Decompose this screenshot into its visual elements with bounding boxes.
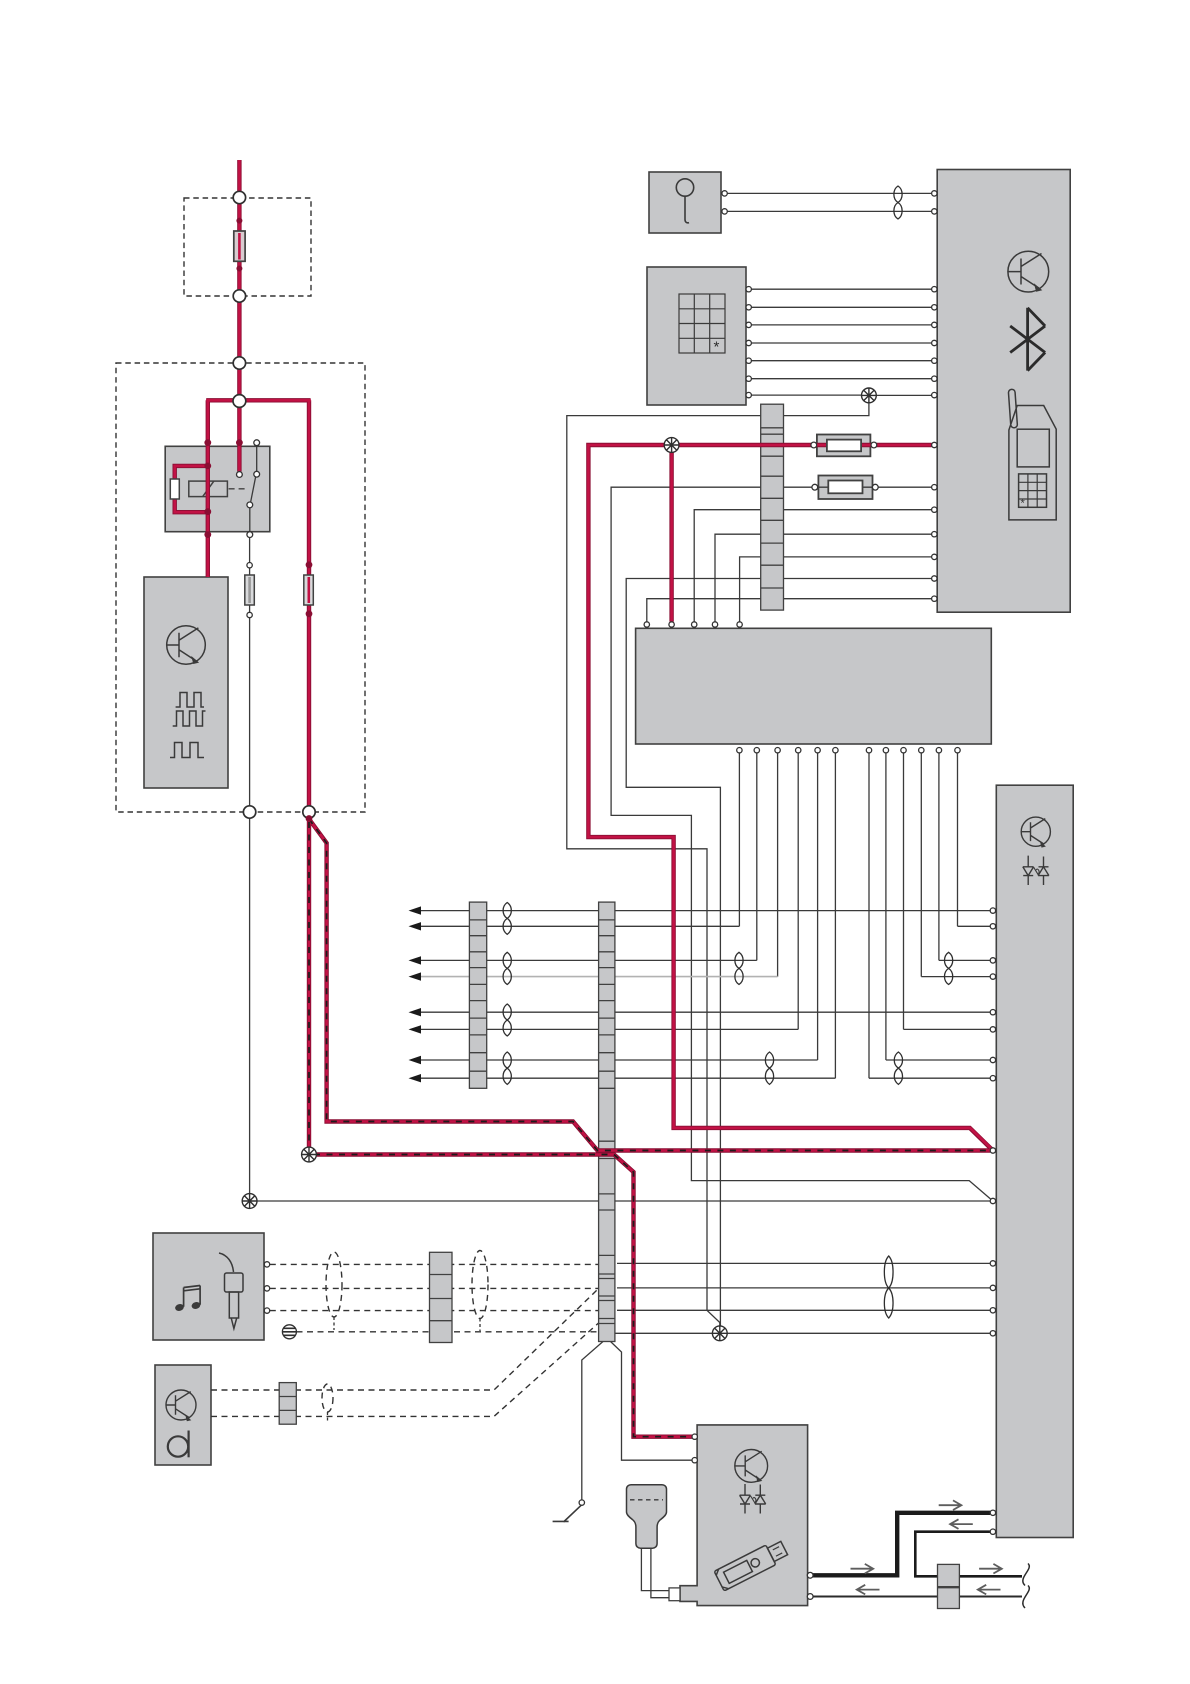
dashed fuse holder box bbox=[184, 198, 311, 296]
connector strip C2 (long middle) bbox=[599, 902, 615, 1341]
wire speaker row3 left bbox=[418, 959, 757, 961]
red junction dot fuse bottom bbox=[236, 266, 242, 272]
square wave symbol row2 bbox=[173, 711, 206, 726]
connector block C4 (AUX) bbox=[430, 1252, 453, 1342]
pin ECU bottom1 bbox=[737, 748, 742, 753]
red junction dot coil top bbox=[204, 463, 211, 470]
audio amplifier box (right tall) bbox=[996, 785, 1073, 1537]
splice S3 red branch bbox=[302, 1147, 317, 1162]
transistor symbol (diagnostic box) bbox=[735, 1450, 768, 1483]
pin aux box R bbox=[264, 1286, 269, 1291]
PINS bbox=[233, 191, 315, 818]
inline connector on red branch wire bbox=[304, 575, 314, 605]
pin mic out2 bbox=[722, 209, 727, 214]
connector block C5 (antenna lead) bbox=[279, 1383, 296, 1425]
keypad icon (keypad box) bbox=[679, 294, 725, 356]
relay K1 body bbox=[165, 446, 270, 531]
wire ECU pin7 drop bbox=[868, 750, 870, 1078]
node connector circle top2 bbox=[233, 290, 245, 302]
red feed wire vertical (bright) bbox=[238, 160, 241, 398]
pin phone module k7 bbox=[932, 392, 937, 397]
pin amp row3 bbox=[990, 958, 995, 963]
wire speaker row6 left bbox=[418, 1028, 798, 1030]
pin ECU bottom2 bbox=[754, 748, 759, 753]
wire ECU pin6 drop bbox=[834, 750, 836, 1078]
wire speaker row4 right bbox=[921, 976, 990, 978]
pin amp usb1 bbox=[990, 1510, 995, 1515]
twist symbol right rows 3-4 bbox=[944, 952, 952, 984]
pin keypad 5 bbox=[746, 358, 751, 363]
red/black stripe dashes branch B bbox=[309, 819, 986, 1151]
wire keypad 6 bbox=[751, 378, 931, 380]
arrow row6 bbox=[409, 1025, 422, 1033]
pin amp row7 bbox=[990, 1057, 995, 1062]
fuse 2 wire across bbox=[818, 486, 872, 488]
wire keypad 7 shield to splice and phone module bbox=[567, 395, 932, 1326]
pin relay switch top bbox=[254, 471, 260, 477]
twist symbol aux triple bbox=[884, 1256, 893, 1318]
pin ECU bottom9 bbox=[901, 748, 906, 753]
pin aux box L bbox=[264, 1262, 269, 1267]
wire ECU pin9 drop bbox=[903, 750, 905, 1029]
pin amp auxG bbox=[990, 1308, 995, 1313]
wire ECU pin4 drop bbox=[797, 750, 799, 1029]
pin phone module mic1 bbox=[932, 191, 937, 196]
pin relay 86 bbox=[254, 440, 260, 446]
pin diag box 2 bbox=[692, 1458, 697, 1463]
wire ECU pin10 drop bbox=[920, 750, 922, 976]
pin phone module d bbox=[932, 576, 937, 581]
pin ECU bottom4 bbox=[796, 748, 801, 753]
wire ECU pin2 drop bbox=[756, 750, 758, 960]
pin phone module 31 bbox=[932, 485, 937, 490]
music note icon bbox=[174, 1286, 201, 1312]
pin phone module k2 bbox=[932, 305, 937, 310]
red branch to splice (dark edge) bbox=[309, 816, 990, 1437]
gray arrow usb left bbox=[950, 1519, 973, 1529]
pin ECU top2 bbox=[669, 622, 674, 627]
wire strip exit to hook switch bbox=[582, 1342, 603, 1500]
red junction dot branch conn bottom bbox=[306, 610, 313, 617]
wire from connector node down to splice bbox=[249, 817, 251, 1193]
relay coil resistor bbox=[170, 479, 179, 499]
wire audio in L bbox=[617, 1262, 990, 1264]
pin amp usb2 bbox=[990, 1529, 995, 1534]
node connector circle bottom-right bbox=[303, 806, 315, 818]
shield oval tail 3 bbox=[327, 1412, 329, 1421]
red junction dot coil bottom bbox=[204, 508, 211, 515]
arrow row1 bbox=[409, 906, 422, 914]
transistor symbol (phone module) bbox=[1008, 251, 1049, 292]
pin mic out1 bbox=[722, 191, 727, 196]
MODULE BOXES bbox=[144, 170, 1073, 1606]
pin phone module k6 bbox=[932, 376, 937, 381]
wire mic - bbox=[727, 210, 931, 212]
wire speaker row8 right bbox=[869, 1077, 990, 1079]
arrow row8 bbox=[409, 1074, 422, 1082]
twist symbol rows 5-6 bbox=[503, 1004, 511, 1036]
wire speaker row2 left bbox=[418, 925, 739, 927]
pin amp ground bbox=[990, 1198, 995, 1203]
red junction dot branch split bbox=[306, 815, 313, 822]
wire speaker row7 left bbox=[418, 1059, 818, 1061]
bluetooth symbol bbox=[1010, 308, 1045, 371]
pin phone module k5 bbox=[932, 358, 937, 363]
node connector circle top1 bbox=[233, 191, 245, 203]
pin aux box G bbox=[264, 1308, 269, 1313]
pin amp row8 bbox=[990, 1076, 995, 1081]
wire speaker row3 right bbox=[939, 959, 990, 961]
gray arrow diag left bbox=[857, 1585, 880, 1595]
wire ECU pin8 drop bbox=[885, 750, 887, 1060]
wire ECU pin11 drop bbox=[938, 750, 940, 960]
antenna amplifier module box bbox=[144, 577, 228, 788]
arrow row2 bbox=[409, 922, 422, 930]
pin relay 87 bbox=[247, 532, 253, 538]
red main supply net (dark edge) bbox=[588, 445, 993, 1151]
bluetooth phone module box (top right) bbox=[937, 170, 1070, 613]
medium USB return wire bbox=[915, 1532, 1022, 1577]
wire audio in R bbox=[617, 1287, 990, 1289]
wire keypad 1 bbox=[751, 288, 931, 290]
pin phone module k1 bbox=[932, 287, 937, 292]
break squiggle upper bbox=[1023, 1564, 1029, 1586]
microphone unit box bbox=[649, 172, 721, 233]
pin ECU top4 bbox=[712, 622, 717, 627]
wire keypad 4 bbox=[751, 342, 931, 344]
dashed AUX wire G bbox=[270, 1310, 598, 1312]
OBD connector plug icon bbox=[627, 1485, 667, 1549]
pin phone module mic2 bbox=[932, 209, 937, 214]
pin relay switch bottom bbox=[247, 502, 253, 508]
pin fuse2 left bbox=[812, 484, 818, 490]
node connector circle bottom-left bbox=[243, 806, 255, 818]
pin keypad 3 bbox=[746, 322, 751, 327]
dashed antenna wire 1 bbox=[211, 1290, 597, 1390]
pin phone module c bbox=[932, 554, 937, 559]
connector block C6 (bottom right) bbox=[938, 1564, 960, 1608]
pin keypad 4 bbox=[746, 340, 751, 345]
wire speaker row8 left bbox=[418, 1077, 835, 1079]
pin ECU top1 bbox=[644, 622, 649, 627]
svg-text:*: * bbox=[1021, 498, 1026, 510]
wire speaker row4 left (gray) bbox=[418, 976, 778, 978]
wire ECU pin1 drop bbox=[738, 750, 740, 926]
twist symbol rows 1-2 bbox=[503, 903, 511, 935]
shield oval 1 bbox=[326, 1252, 342, 1317]
wire ECU pin5 drop bbox=[817, 750, 819, 1060]
diagnostic tab white plug bbox=[669, 1588, 680, 1601]
pin keypad 1 bbox=[746, 287, 751, 292]
connector strip C3 (top, near fuses) bbox=[761, 404, 784, 610]
svg-text:*: * bbox=[714, 339, 720, 356]
wire speaker row2 right bbox=[958, 925, 991, 927]
red feed wire vertical (dark edge) bbox=[237, 160, 241, 398]
STRIPS bbox=[279, 404, 959, 1608]
pin phone module k3 bbox=[932, 322, 937, 327]
wire ECU pin12 drop bbox=[957, 750, 959, 926]
splice S1 keypad shield bbox=[862, 388, 877, 403]
pin ECU bottom12 bbox=[955, 748, 960, 753]
pin diag box usb out bbox=[807, 1572, 813, 1578]
thick USB data wire bbox=[813, 1513, 990, 1576]
wire keypad 3 bbox=[751, 324, 931, 326]
arrow row4 bbox=[409, 972, 422, 980]
red junction dot fuse top bbox=[236, 218, 242, 224]
dual zener symbol (audio amplifier) bbox=[1023, 856, 1049, 885]
wire speaker row6 right bbox=[904, 1028, 991, 1030]
pin diag box supply bbox=[692, 1434, 697, 1439]
pin amp row6 bbox=[990, 1027, 995, 1032]
pin keypad 2 bbox=[746, 305, 751, 310]
wire phone module pin 578 bypass to splice bbox=[626, 579, 931, 1327]
gray arrow usb right bbox=[939, 1500, 962, 1510]
wire phone module pin 557 to ECU bbox=[740, 557, 932, 622]
wire ground splice row to amplifier pin bbox=[257, 1200, 990, 1202]
pin ECU bottom3 bbox=[775, 748, 780, 753]
wire speaker row7 right bbox=[886, 1059, 990, 1061]
pin amp row5 bbox=[990, 1010, 995, 1015]
audio jack plug icon bbox=[219, 1253, 243, 1329]
pin ECU bottom5 bbox=[815, 748, 820, 753]
pin ECU top5 bbox=[737, 622, 742, 627]
red main supply net (bright) bbox=[588, 445, 993, 1151]
pin hook switch bbox=[579, 1500, 584, 1505]
red/black stripe dashes branch A bbox=[309, 822, 688, 1437]
shield oval tail 1 bbox=[333, 1317, 335, 1330]
pin phone module 30 bbox=[932, 442, 937, 447]
dashed AUX shield wire bbox=[297, 1331, 599, 1333]
red junction bar (bright) bbox=[206, 400, 311, 808]
twist symbol rows 7-8 bbox=[503, 1052, 511, 1084]
shield oval 3 bbox=[322, 1384, 333, 1412]
wire audio drain to splice bbox=[615, 1332, 990, 1334]
wire phone module pin 534 to ECU bbox=[715, 534, 932, 622]
transistor symbol (antenna amplifier) bbox=[167, 626, 206, 665]
twist symbol mid rows 7-8 bbox=[765, 1052, 773, 1084]
red junction dot branch conn top bbox=[306, 561, 313, 568]
pin phone module k4 bbox=[932, 340, 937, 345]
AUX media source box bbox=[153, 1233, 264, 1340]
diagnostic connector cable double line bbox=[641, 1547, 670, 1598]
wire strip exit to diag box bbox=[611, 1342, 693, 1461]
twist symbol right rows 7-8 bbox=[894, 1052, 902, 1084]
mobile phone icon bbox=[1008, 389, 1056, 520]
pin ECU bottom11 bbox=[936, 748, 941, 753]
pin diag box acc out bbox=[807, 1594, 813, 1600]
relay coil rectangle bbox=[189, 481, 247, 497]
inline connector on switch wire bbox=[245, 575, 255, 605]
pin amp auxS bbox=[990, 1331, 995, 1336]
shield oval 2 bbox=[472, 1251, 488, 1319]
red coil loop (bright) bbox=[175, 466, 208, 512]
gray arrow ext left bbox=[978, 1585, 1001, 1595]
wire keypad 2 bbox=[751, 306, 931, 308]
gray arrow diag right bbox=[851, 1564, 874, 1574]
wire keypad 5 bbox=[751, 360, 931, 362]
splice S2 supply bbox=[664, 438, 679, 453]
pin fuse1 right bbox=[871, 442, 877, 448]
twist symbol mic pair bbox=[894, 186, 902, 219]
break squiggle lower bbox=[1023, 1586, 1029, 1609]
pin amp row4 bbox=[990, 974, 995, 979]
pin amp auxL bbox=[990, 1261, 995, 1266]
red junction dot relay 87 bbox=[204, 531, 211, 538]
antenna unit box (a) bbox=[155, 1365, 211, 1465]
pin amp supply bbox=[990, 1148, 995, 1153]
diagnostic interface box (bottom) bbox=[680, 1425, 808, 1606]
square wave symbol row1 bbox=[176, 693, 204, 708]
arrow row3 bbox=[409, 956, 422, 964]
fuse 1 element bbox=[827, 440, 861, 452]
pin ECU bottom6 bbox=[833, 748, 838, 753]
pin inline conn bottom bbox=[247, 612, 252, 617]
pin amp row1 bbox=[990, 908, 995, 913]
pin ECU top3 bbox=[692, 622, 697, 627]
node connector circle top3 bbox=[233, 357, 245, 369]
pin fuse1 left bbox=[811, 442, 817, 448]
fuse holder 1 body bbox=[817, 435, 871, 457]
wire speaker row1 bbox=[418, 910, 990, 912]
keypad unit box bbox=[647, 267, 746, 405]
wire phone module pin 509 to ECU bbox=[694, 510, 931, 622]
red junction dot relay top left bbox=[204, 439, 211, 446]
arrow row5 bbox=[409, 1008, 422, 1016]
wire audio in shield bbox=[617, 1309, 990, 1311]
shield oval tail 2 bbox=[479, 1319, 481, 1332]
dashed AUX wire L bbox=[270, 1263, 598, 1265]
fuse in holder box 1 bbox=[234, 231, 245, 261]
pin keypad 7 bbox=[746, 392, 751, 397]
REDWIRES bbox=[175, 160, 993, 1437]
wire switch output down left column bbox=[249, 537, 251, 806]
wire relay switch contact chain bbox=[250, 445, 257, 532]
connector strip C1 (left) bbox=[469, 902, 486, 1088]
pin phone module b bbox=[932, 532, 937, 537]
twist symbol mid rows 3-4 bbox=[735, 952, 743, 984]
microphone icon bbox=[676, 179, 693, 223]
square wave symbol row3 bbox=[170, 743, 204, 758]
pin fuse2 right bbox=[872, 484, 878, 490]
arrow row7 bbox=[409, 1056, 422, 1064]
pin ECU bottom7 bbox=[866, 748, 871, 753]
pin amp auxR bbox=[990, 1285, 995, 1290]
pin ECU bottom10 bbox=[919, 748, 924, 753]
wire speaker row5 bbox=[418, 1011, 990, 1013]
dual zener symbol (diagnostic box) bbox=[740, 1484, 766, 1514]
fuse holder 2 body bbox=[818, 476, 872, 500]
red coil loop (dark edge) bbox=[175, 466, 208, 512]
transistor symbol (antenna unit) bbox=[166, 1390, 196, 1421]
dashed AUX wire R bbox=[270, 1287, 598, 1289]
shield ground symbol (hatched circle) bbox=[282, 1325, 296, 1339]
gray arrow ext right bbox=[979, 1564, 1002, 1574]
dashed relay/module enclosure box bbox=[116, 363, 365, 812]
pin ECU bottom8 bbox=[883, 748, 888, 753]
pin phone module a bbox=[932, 507, 937, 512]
node junction circle J1 bbox=[233, 395, 246, 408]
red junction dot relay top mid bbox=[236, 439, 243, 446]
hook switch blade bbox=[553, 1505, 581, 1522]
wire mic + bbox=[727, 192, 931, 194]
pin relay coil feed end bbox=[237, 472, 243, 478]
dashed antenna wire 2 bbox=[211, 1311, 612, 1416]
twist symbol rows 3-4 bbox=[503, 952, 511, 984]
splice S5 shield drain bbox=[712, 1326, 727, 1341]
wire ECU pin3 drop bbox=[777, 750, 779, 976]
central control unit ECU box bbox=[636, 628, 992, 744]
letter a antenna glyph bbox=[168, 1431, 189, 1458]
pin phone module e bbox=[932, 596, 937, 601]
wire phone module pin 598 to ECU bbox=[647, 599, 932, 622]
usb stick icon bbox=[714, 1538, 789, 1591]
splice S4 ground bbox=[242, 1194, 257, 1209]
pin inline conn top bbox=[247, 563, 252, 568]
pin keypad 6 bbox=[746, 376, 751, 381]
transistor symbol (audio amplifier) bbox=[1021, 817, 1050, 847]
thin lower accessory wire bbox=[813, 1596, 1022, 1598]
pin amp row2 bbox=[990, 924, 995, 929]
red junction bar (dark edge) bbox=[206, 400, 310, 808]
fuse 2 element bbox=[828, 481, 862, 494]
red branch to splice (bright) bbox=[309, 816, 990, 1437]
wire fuse2 net to ground pin bbox=[611, 487, 993, 1201]
